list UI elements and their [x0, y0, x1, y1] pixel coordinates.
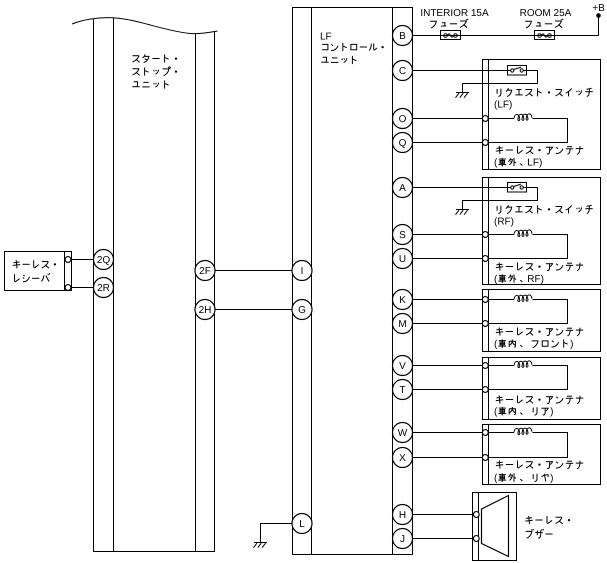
- wire connector to antenna terminal 1: [412, 365, 482, 367]
- wire switch to ground: [463, 188, 538, 210]
- component box inner line: [488, 178, 490, 285]
- svg-text:T: T: [399, 385, 405, 396]
- label "リクエスト・スイッチ": [497, 89, 501, 97]
- component box: [483, 178, 601, 285]
- connector T: [393, 380, 413, 400]
- antenna terminal 1: [482, 363, 488, 369]
- connector J: [393, 529, 413, 549]
- buzzer horn cone: [482, 496, 509, 557]
- antenna terminal 2: [482, 321, 488, 327]
- start-stop unit box left inner line: [113, 18, 115, 552]
- antenna coil loop wire: [488, 365, 514, 367]
- wire connector to antenna terminal 1: [412, 234, 482, 236]
- connector M: [393, 314, 413, 334]
- connector Q: [393, 133, 413, 153]
- antenna terminal 2: [482, 256, 488, 262]
- buzzer box: [473, 493, 517, 561]
- LF control unit top edge: [292, 7, 413, 9]
- svg-text:L: L: [299, 519, 305, 530]
- keyless receiver box: [5, 252, 72, 291]
- buzzer terminal upper: [473, 512, 479, 518]
- svg-text:2F: 2F: [199, 266, 211, 277]
- svg-text:A: A: [399, 183, 406, 194]
- wire 2H to G: [215, 309, 292, 311]
- antenna terminal 1: [482, 430, 488, 436]
- connector W: [393, 423, 413, 443]
- svg-text:J: J: [400, 534, 405, 545]
- svg-text:LF: LF: [320, 31, 332, 42]
- antenna coil loop wire: [488, 118, 514, 120]
- svg-text:M: M: [398, 319, 406, 330]
- receiver terminal pin upper: [65, 257, 71, 263]
- connector B: [393, 26, 413, 46]
- connector X: [393, 448, 413, 468]
- start-stop unit box right inner line: [195, 33, 197, 551]
- start-stop unit box bottom edge: [93, 551, 215, 553]
- connector C: [393, 61, 413, 81]
- connector S: [393, 225, 413, 245]
- label fuse2 "フューズ": [525, 21, 531, 28]
- label "レシーバ": [15, 274, 20, 281]
- start-stop unit torn-edge wavy line: [72, 18, 218, 34]
- component box inner line: [488, 60, 490, 170]
- receiver terminal pin lower: [65, 285, 71, 291]
- component box: [483, 425, 601, 485]
- label "キーレス・アンテナ": [496, 327, 503, 335]
- svg-text:LF): LF): [527, 157, 542, 168]
- component box inner line: [488, 358, 490, 420]
- wire switch to ground: [463, 71, 538, 93]
- antenna terminal 2: [482, 387, 488, 393]
- svg-text:W: W: [398, 428, 408, 439]
- antenna terminal 1: [482, 116, 488, 122]
- connector 2F: [195, 261, 215, 281]
- connector A: [393, 178, 413, 198]
- antenna terminal 2: [482, 140, 488, 146]
- svg-text:O: O: [399, 114, 407, 125]
- label "ストップ・": [133, 69, 140, 76]
- svg-text:I: I: [301, 266, 304, 277]
- wire L to ground: [261, 524, 293, 543]
- LF control unit left outer line: [292, 8, 294, 555]
- label "キーレス・アンテナ": [496, 395, 503, 403]
- antenna terminal 2: [482, 455, 488, 461]
- wire connector to antenna terminal 2: [412, 258, 482, 260]
- connector G: [292, 300, 312, 320]
- svg-text:H: H: [399, 510, 406, 521]
- label "キーレス・アンテナ": [496, 262, 503, 270]
- label "キーレス・アンテナ": [496, 460, 503, 468]
- svg-text:RF): RF): [527, 274, 544, 285]
- svg-text:B: B: [399, 31, 406, 42]
- wire connector to antenna terminal 2: [412, 457, 482, 459]
- svg-text:INTERIOR 15A: INTERIOR 15A: [420, 8, 489, 19]
- wire connector to request switch: [412, 187, 507, 189]
- wire B to +B: [412, 35, 598, 37]
- antenna terminal 1: [482, 297, 488, 303]
- connector I: [292, 261, 312, 281]
- label "ユニット": [132, 82, 139, 87]
- fuse ROOM 25A: [535, 31, 555, 40]
- component box: [483, 290, 601, 352]
- wire J to buzzer: [412, 538, 473, 540]
- connector 2H: [195, 300, 215, 320]
- svg-text:): ): [570, 339, 573, 350]
- svg-text:S: S: [399, 230, 406, 241]
- label "リクエスト・スイッチ": [497, 206, 501, 214]
- svg-text:2Q: 2Q: [97, 255, 111, 266]
- keyless receiver connector strip line: [64, 252, 66, 291]
- buzzer box inner line: [478, 493, 480, 561]
- LF control unit left inner line: [311, 8, 313, 555]
- request switch: [508, 183, 527, 193]
- connector H: [393, 505, 413, 525]
- svg-text:): ): [550, 473, 553, 484]
- connector K: [393, 290, 413, 310]
- start-stop unit box left outer line: [93, 19, 95, 551]
- connector 2R: [94, 278, 114, 298]
- wire connector to request switch: [412, 70, 507, 72]
- wire H to buzzer: [412, 514, 473, 516]
- connector 2Q: [94, 250, 114, 270]
- buzzer terminal lower: [473, 536, 479, 542]
- antenna coil loop wire: [488, 299, 514, 301]
- wire connector to antenna terminal 2: [412, 389, 482, 391]
- component box inner line: [488, 290, 490, 352]
- wire connector to antenna terminal 2: [412, 323, 482, 325]
- ground symbol: [456, 92, 469, 94]
- svg-text:Q: Q: [399, 138, 407, 149]
- wire connector to antenna terminal 1: [412, 299, 482, 301]
- fuse INTERIOR 15A: [441, 31, 461, 40]
- ground symbol at L: [254, 542, 267, 544]
- label "ユニット" 2: [321, 57, 328, 62]
- wire receiver to 2R: [72, 287, 94, 289]
- svg-text:ROOM 25A: ROOM 25A: [520, 8, 572, 19]
- svg-text:2H: 2H: [199, 305, 212, 316]
- antenna coil loop wire: [488, 234, 514, 236]
- label "ブザー": [526, 529, 534, 538]
- antenna coil loop wire: [488, 432, 514, 434]
- label "コントロール・": [322, 44, 328, 49]
- label "キーレス・" buzzer: [525, 516, 532, 524]
- label "スタート・": [133, 56, 140, 63]
- component box inner line: [488, 425, 490, 485]
- LF control unit right outer line: [412, 8, 414, 555]
- svg-text:2R: 2R: [97, 283, 110, 294]
- label "キーレス・": [13, 260, 20, 268]
- component box: [483, 60, 601, 170]
- wire receiver to 2Q: [72, 259, 94, 261]
- svg-text:C: C: [399, 66, 406, 77]
- wire connector to antenna terminal 1: [412, 118, 482, 120]
- request switch: [508, 66, 527, 76]
- wire 2F to I: [215, 270, 292, 272]
- svg-text:U: U: [399, 254, 406, 265]
- ground symbol: [456, 209, 469, 211]
- svg-text:(RF): (RF): [494, 216, 514, 227]
- +B supply stub: [598, 17, 600, 36]
- svg-text:V: V: [399, 361, 406, 372]
- label "キーレス・アンテナ": [496, 146, 503, 154]
- antenna terminal 1: [482, 232, 488, 238]
- svg-text:K: K: [399, 295, 406, 306]
- connector U: [393, 249, 413, 269]
- connector V: [393, 356, 413, 376]
- label fuse1 "フューズ": [430, 21, 436, 28]
- LF control unit right inner line: [392, 8, 394, 555]
- wire connector to antenna terminal 1: [412, 432, 482, 434]
- svg-text:G: G: [298, 305, 306, 316]
- svg-text:+B: +B: [592, 3, 605, 14]
- start-stop unit box right outer line: [214, 32, 216, 552]
- svg-text:X: X: [399, 453, 406, 464]
- LF control unit bottom edge: [292, 554, 413, 556]
- component box: [483, 358, 601, 420]
- svg-text:): ): [550, 406, 553, 417]
- svg-text:(LF): (LF): [494, 100, 512, 111]
- connector O: [393, 109, 413, 129]
- wire connector to antenna terminal 2: [412, 142, 482, 144]
- connector L: [292, 514, 312, 534]
